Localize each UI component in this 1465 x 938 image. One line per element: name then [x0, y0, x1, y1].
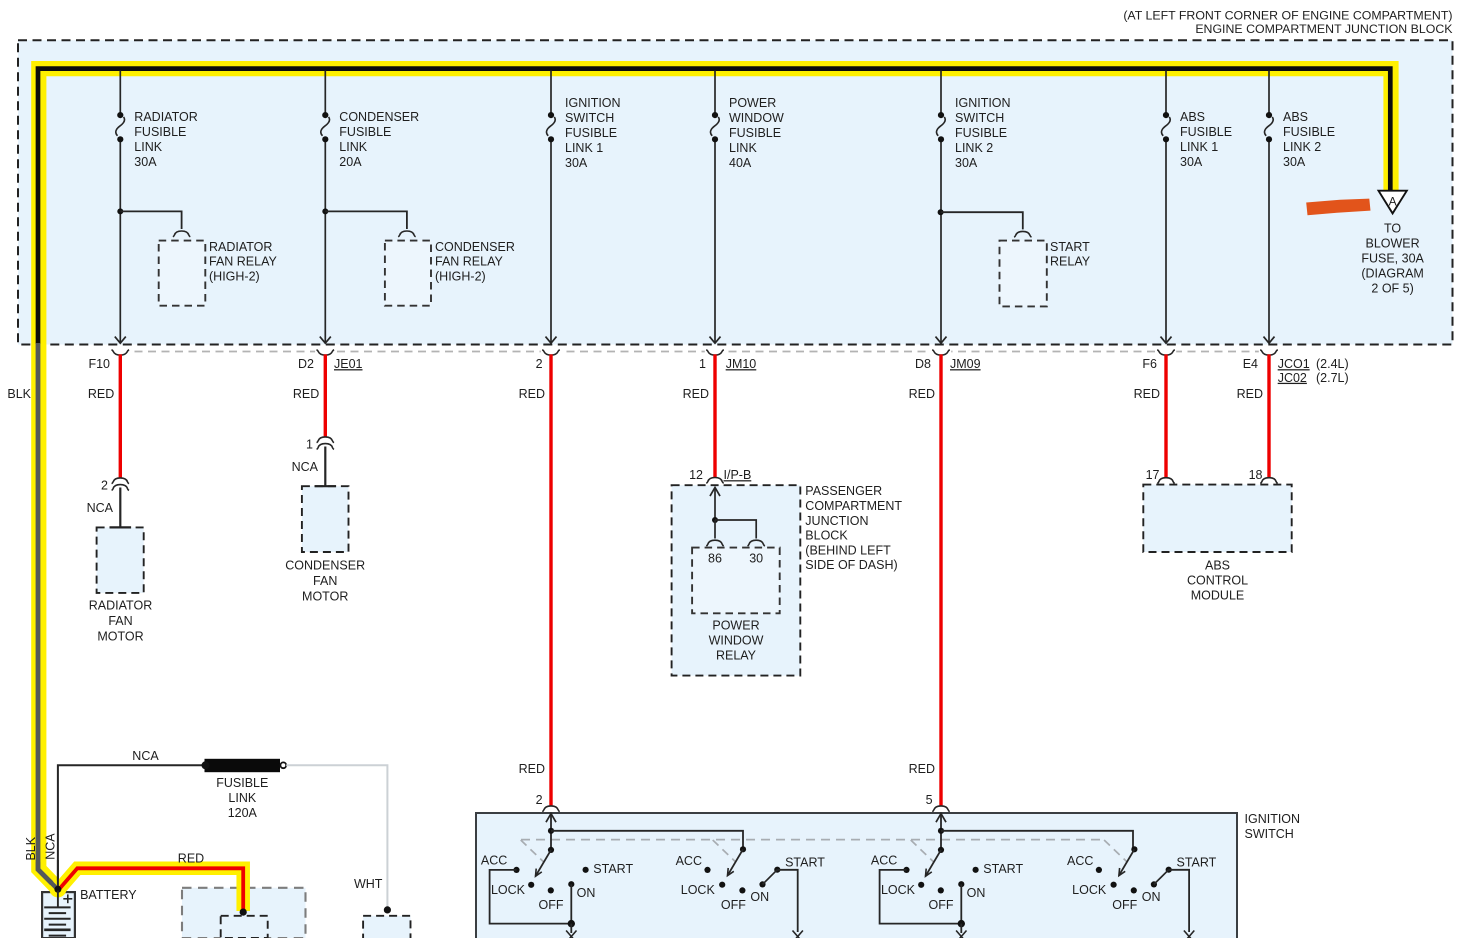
- svg-text:FAN RELAY: FAN RELAY: [435, 254, 504, 268]
- svg-text:LINK 1: LINK 1: [1180, 140, 1218, 154]
- svg-text:OFF: OFF: [929, 898, 954, 912]
- svg-text:(2.7L): (2.7L): [1316, 371, 1349, 385]
- junction node to condenser fan relay: [322, 208, 407, 229]
- labels ACC LOCK OFF ON START (wafer 2): [676, 854, 826, 912]
- pin label 86: [708, 551, 722, 565]
- svg-text:IGNITION: IGNITION: [1245, 812, 1301, 826]
- svg-text:JM09: JM09: [950, 357, 981, 371]
- off-page triangle A: [1379, 191, 1407, 214]
- label RED (ignition 1 column, lower): [519, 762, 545, 776]
- ignition switch (box): [476, 813, 1237, 938]
- wire to next wafer pivot (wafer 3): [941, 831, 1133, 850]
- wire START contact to output (wafer 4): [1169, 870, 1189, 932]
- contact LOCK (wafer 1): [528, 882, 534, 888]
- contact OFF (wafer 1): [548, 887, 554, 893]
- connector cup pin D2 (condenser fan): [315, 349, 335, 356]
- svg-text:LINK: LINK: [729, 141, 757, 155]
- svg-text:(DIAGRAM: (DIAGRAM: [1361, 267, 1424, 281]
- wire ACC-ON loop (wafer 1): [490, 870, 572, 924]
- junction block connector face (gray dashed line): [121, 351, 1269, 353]
- radiator fan relay (dashed box): [159, 241, 206, 306]
- fusible link symbol (power window): [711, 112, 720, 142]
- svg-text:RED: RED: [293, 387, 319, 401]
- contact ON (wafer 1): [568, 881, 574, 887]
- svg-text:2: 2: [101, 478, 108, 492]
- label START RELAY: [1050, 240, 1091, 268]
- label NCA (vertical, battery lead): [43, 833, 57, 860]
- svg-text:E4: E4: [1243, 357, 1258, 371]
- contact ACC (wafer 1): [513, 867, 519, 873]
- svg-text:(BEHIND LEFT: (BEHIND LEFT: [805, 543, 891, 557]
- fusible link symbol (ABS 2): [1265, 112, 1274, 142]
- svg-text:FUSIBLE: FUSIBLE: [729, 126, 781, 140]
- mechanical link diagonal (wafer 1): [521, 840, 544, 862]
- svg-text:START: START: [785, 856, 825, 870]
- power window relay (dashed box): [692, 548, 780, 614]
- svg-text:LINK 1: LINK 1: [565, 141, 603, 155]
- svg-text:COMPARTMENT: COMPARTMENT: [805, 499, 902, 513]
- svg-text:12: 12: [689, 468, 703, 482]
- junction node bus link (wafer 1): [548, 828, 554, 834]
- label POWER WINDOW RELAY: [709, 619, 764, 663]
- svg-text:ABS: ABS: [1205, 558, 1230, 572]
- svg-text:FAN: FAN: [108, 614, 132, 628]
- svg-text:FUSIBLE: FUSIBLE: [1283, 125, 1335, 139]
- label RADIATOR FUSIBLE (radiator fan): [134, 110, 197, 169]
- pin label E4 / nets JCO1 JC02: [1243, 357, 1349, 385]
- wire RED E4 to ABS control module pin 18: [1267, 354, 1270, 477]
- fusible link 120A (black body): [202, 759, 287, 772]
- label ABS FUSIBLE (ABS 2): [1283, 110, 1335, 169]
- pin 86 connector arc: [706, 540, 723, 546]
- svg-text:WHT: WHT: [354, 877, 383, 891]
- svg-text:FAN RELAY: FAN RELAY: [209, 254, 278, 268]
- rotor arm (wafer 4): [1119, 849, 1135, 875]
- svg-text:LINK: LINK: [134, 140, 162, 154]
- contact START (wafer 3): [973, 867, 979, 873]
- svg-text:(HIGH-2): (HIGH-2): [209, 269, 260, 283]
- svg-text:F6: F6: [1142, 357, 1157, 371]
- wire RED battery feed to starter box: [58, 868, 243, 911]
- pin label 30: [749, 551, 763, 565]
- contact ON (wafer 2): [759, 881, 765, 887]
- svg-text:F10: F10: [88, 357, 110, 371]
- svg-text:IGNITION: IGNITION: [565, 96, 621, 110]
- contact START (wafer 4): [1166, 867, 1172, 873]
- label POWER WINDOW (power window): [729, 96, 784, 170]
- label RED (ignition 2 column, upper): [909, 387, 935, 401]
- svg-text:LOCK: LOCK: [1072, 883, 1107, 897]
- svg-text:ACC: ACC: [1067, 854, 1093, 868]
- pin label 1 / net JM10: [699, 357, 756, 371]
- svg-text:RED: RED: [88, 387, 114, 401]
- starter feed inner box (dashed): [221, 916, 268, 938]
- svg-text:LOCK: LOCK: [491, 883, 526, 897]
- svg-text:RED: RED: [683, 387, 709, 401]
- junction node (power window relay feed): [712, 517, 718, 523]
- labels ACC LOCK OFF ON START (wafer 4): [1067, 854, 1217, 912]
- wire NCA lower end over highlight: [57, 860, 59, 889]
- label RED (power window column): [683, 387, 709, 401]
- svg-text:ACC: ACC: [481, 854, 507, 868]
- wire from bus to radiator fan fusible link output: [115, 71, 126, 344]
- svg-text:CONDENSER: CONDENSER: [285, 558, 365, 572]
- contact LOCK (wafer 3): [918, 882, 924, 888]
- svg-text:RADIATOR: RADIATOR: [209, 240, 272, 254]
- svg-text:FUSIBLE: FUSIBLE: [216, 776, 268, 790]
- wire from bus to ABS 2 fusible link output: [1264, 71, 1275, 344]
- svg-text:JM10: JM10: [726, 357, 757, 371]
- yellow highlight for RED battery feed wire: [49, 868, 243, 911]
- output wire exits bottom (wafer 1): [566, 924, 576, 938]
- svg-text:30A: 30A: [1180, 155, 1203, 169]
- mechanical link diagonal (wafer 2): [713, 840, 736, 862]
- junction node to radiator fan relay: [117, 208, 181, 229]
- svg-text:SWITCH: SWITCH: [955, 111, 1004, 125]
- svg-text:OFF: OFF: [539, 898, 564, 912]
- svg-text:FUSIBLE: FUSIBLE: [955, 126, 1007, 140]
- wire into power window relay (arrow up): [710, 488, 720, 521]
- svg-text:POWER: POWER: [712, 619, 759, 633]
- contact ACC (wafer 3): [903, 867, 909, 873]
- contact LOCK (wafer 2): [719, 882, 725, 888]
- wire NCA to radiator fan motor: [119, 488, 121, 528]
- label RADIATOR FAN RELAY (HIGH-2): [209, 240, 278, 283]
- start relay (dashed box): [1000, 241, 1047, 307]
- label CONDENSER FUSIBLE (condenser fan): [339, 110, 419, 169]
- label RED (ignition 2 column, lower): [909, 762, 935, 776]
- pin 17 connector arc: [1146, 468, 1175, 483]
- svg-text:I/P-B: I/P-B: [724, 468, 752, 482]
- wire from bus to ABS 1 fusible link output: [1161, 71, 1172, 344]
- svg-text:17: 17: [1146, 468, 1160, 482]
- svg-text:NCA: NCA: [43, 833, 57, 860]
- svg-text:RED: RED: [1237, 387, 1263, 401]
- svg-text:30A: 30A: [955, 156, 978, 170]
- svg-text:FAN: FAN: [313, 574, 337, 588]
- junction node to start relay: [938, 209, 1023, 229]
- wire RED JM09 to ignition switch pin 5: [939, 354, 942, 805]
- svg-text:BLK: BLK: [24, 836, 38, 860]
- label BLK (left edge): [7, 387, 31, 401]
- svg-text:LOCK: LOCK: [881, 883, 916, 897]
- wire RED F6 to ABS control module pin 17: [1164, 354, 1167, 477]
- svg-text:JCO1: JCO1: [1278, 357, 1310, 371]
- orange highlighter mark: [1306, 199, 1370, 216]
- svg-text:RED: RED: [1134, 387, 1160, 401]
- wire branch to relay pin 86: [714, 520, 716, 539]
- pin 2 connector arc (ignition switch): [536, 793, 560, 812]
- svg-text:POWER: POWER: [729, 96, 776, 110]
- svg-text:OFF: OFF: [1112, 898, 1137, 912]
- svg-text:ON: ON: [750, 890, 769, 904]
- battery positive junction node: [54, 886, 61, 893]
- wire branch to relay pin 30: [715, 520, 756, 539]
- output wire exits bottom (wafer 4): [1184, 931, 1194, 938]
- wire from bus to condenser fan fusible link output: [320, 71, 331, 344]
- condenser fan motor (dashed box): [302, 486, 349, 552]
- pin connector arc (condenser fan relay coil): [398, 231, 415, 237]
- pin connector arc (radiator fan relay coil): [173, 231, 190, 237]
- label RED (ABS 1 column): [1134, 387, 1160, 401]
- label IGNITION SWITCH: [1245, 812, 1301, 841]
- mechanical link diagonal (wafer 4): [1104, 840, 1127, 862]
- svg-text:20A: 20A: [339, 155, 362, 169]
- labels ACC LOCK OFF ON START (wafer 1): [481, 854, 634, 912]
- contact ACC (wafer 4): [1096, 867, 1102, 873]
- junction node (starter feed): [240, 909, 247, 916]
- wire RED to ignition switch pin 2: [549, 354, 552, 805]
- svg-text:FUSIBLE: FUSIBLE: [565, 126, 617, 140]
- output wire exits bottom (wafer 3): [956, 924, 966, 938]
- svg-text:30A: 30A: [134, 155, 157, 169]
- wire ON to START contact (wafer 4): [1154, 870, 1169, 885]
- svg-text:OFF: OFF: [721, 898, 746, 912]
- label IGNITION SWITCH (ignition switch 1): [565, 96, 621, 170]
- svg-text:NCA: NCA: [87, 501, 114, 515]
- svg-text:RED: RED: [519, 387, 545, 401]
- svg-text:JUNCTION: JUNCTION: [805, 514, 868, 528]
- pin connector arc (start relay coil): [1014, 231, 1031, 237]
- wire to next wafer pivot (wafer 1): [551, 831, 743, 850]
- svg-text:CONDENSER: CONDENSER: [339, 110, 419, 124]
- contact START (wafer 2): [774, 867, 780, 873]
- svg-text:RADIATOR: RADIATOR: [134, 110, 197, 124]
- svg-text:ENGINE COMPARTMENT JUNCTION BL: ENGINE COMPARTMENT JUNCTION BLOCK: [1195, 22, 1453, 36]
- wire NCA battery to fusible link 120A: [58, 765, 205, 889]
- svg-text:RED: RED: [909, 387, 935, 401]
- mechanical link diagonal (wafer 3): [911, 840, 934, 862]
- connector cup pin D8 (ignition switch 2): [931, 349, 951, 356]
- connector cup pin E4 (ABS 2): [1259, 349, 1279, 356]
- svg-text:ON: ON: [967, 886, 986, 900]
- svg-text:RELAY: RELAY: [1050, 254, 1091, 268]
- svg-text:5: 5: [926, 793, 933, 807]
- inline connector pin 2 (radiator fan motor): [101, 478, 129, 492]
- svg-text:30: 30: [749, 551, 763, 565]
- svg-text:BLOCK: BLOCK: [805, 529, 848, 543]
- bus wire (black core, junction block feed): [38, 69, 1390, 344]
- label PASSENGER COMPARTMENT JUNCTION BLOCK (BEHIND LEFT SIDE OF DASH): [805, 484, 902, 572]
- rotor pivot node (wafer 2): [740, 846, 746, 852]
- svg-text:LOCK: LOCK: [681, 883, 716, 897]
- mechanical link (gray dashed horizontal): [521, 839, 1101, 841]
- pin label F10: [88, 357, 110, 371]
- svg-text:START: START: [593, 862, 633, 876]
- pin label D8 / net JM09: [915, 357, 981, 371]
- pin label F6: [1142, 357, 1157, 371]
- svg-text:ACC: ACC: [871, 854, 897, 868]
- svg-text:18: 18: [1249, 468, 1263, 482]
- pin 30 connector arc: [748, 540, 765, 546]
- svg-text:SIDE OF DASH): SIDE OF DASH): [805, 558, 897, 572]
- svg-text:RED: RED: [519, 762, 545, 776]
- pin label D2 / net JE01: [298, 357, 363, 371]
- wire RED D2/JE01 to condenser fan motor: [324, 354, 327, 436]
- ignition switch feed entry (wafer 1): [546, 814, 556, 850]
- wire WHT from fusible link: [286, 765, 387, 908]
- connector cup pin F6 (ABS 1): [1156, 349, 1176, 356]
- contact ON (wafer 4): [1151, 881, 1157, 887]
- label NCA (horizontal run): [132, 749, 159, 763]
- output wire exits bottom (wafer 2): [793, 931, 803, 938]
- label IGNITION SWITCH (ignition switch 2): [955, 96, 1011, 170]
- fusible link symbol (radiator fan): [116, 112, 125, 142]
- svg-text:1: 1: [306, 437, 313, 451]
- rotor arm (wafer 1): [536, 850, 552, 876]
- svg-text:BATTERY: BATTERY: [80, 888, 137, 902]
- svg-text:D2: D2: [298, 357, 314, 371]
- svg-text:IGNITION: IGNITION: [955, 96, 1011, 110]
- junction node output (wafer 1): [568, 920, 575, 927]
- connector cup pin 1 (power window): [705, 349, 725, 356]
- svg-text:2 OF 5): 2 OF 5): [1371, 282, 1413, 296]
- pin 5 connector arc (ignition switch): [926, 793, 950, 812]
- svg-text:MOTOR: MOTOR: [302, 589, 348, 603]
- svg-text:ON: ON: [577, 886, 596, 900]
- contact LOCK (wafer 4): [1111, 882, 1117, 888]
- contact START (wafer 1): [583, 867, 589, 873]
- svg-text:2: 2: [536, 793, 543, 807]
- svg-text:LINK 2: LINK 2: [955, 141, 993, 155]
- svg-text:NCA: NCA: [292, 460, 319, 474]
- svg-text:START: START: [983, 862, 1023, 876]
- svg-text:SWITCH: SWITCH: [1245, 827, 1294, 841]
- svg-text:WINDOW: WINDOW: [709, 634, 764, 648]
- engine compartment junction block (dashed box): [18, 40, 1453, 344]
- inline connector pin 1 (condenser fan motor): [306, 437, 334, 451]
- contact OFF (wafer 3): [938, 887, 944, 893]
- svg-text:CONTROL: CONTROL: [1187, 573, 1248, 587]
- wire from bus to ignition switch 2 fusible link output: [936, 71, 947, 344]
- wire NCA to condenser fan motor: [324, 447, 326, 487]
- svg-text:30A: 30A: [565, 156, 588, 170]
- svg-text:FUSIBLE: FUSIBLE: [339, 125, 391, 139]
- starter feed outer box (gray dashed): [182, 888, 306, 938]
- svg-text:LINK: LINK: [228, 791, 256, 805]
- rotor pivot node (wafer 4): [1131, 846, 1137, 852]
- junction node output (wafer 3): [958, 920, 965, 927]
- label WHT: [354, 877, 383, 891]
- svg-text:CONDENSER: CONDENSER: [435, 240, 515, 254]
- component box on WHT wire (dashed): [363, 916, 410, 938]
- rotor arm (wafer 2): [728, 849, 744, 875]
- wire RED JM10 to passenger compartment junction block: [713, 354, 716, 477]
- contact ACC (wafer 2): [704, 867, 710, 873]
- svg-text:86: 86: [708, 551, 722, 565]
- svg-text:JC02: JC02: [1278, 371, 1307, 385]
- battery (box symbol): [42, 892, 75, 938]
- svg-text:MODULE: MODULE: [1191, 588, 1244, 602]
- wire BLK battery positive lead: [38, 343, 58, 890]
- svg-text:ABS: ABS: [1180, 110, 1205, 124]
- labels ACC LOCK OFF ON START (wafer 3): [871, 854, 1024, 912]
- svg-text:MOTOR: MOTOR: [97, 629, 143, 643]
- wire to blower fuse (yellow/black, right side): [0, 0, 1, 1]
- svg-text:FUSIBLE: FUSIBLE: [134, 125, 186, 139]
- label NCA (radiator fan motor): [87, 501, 114, 515]
- svg-text:START: START: [1177, 856, 1217, 870]
- label TO BLOWER FUSE 30A (DIAGRAM 2 OF 5): [1361, 221, 1424, 295]
- svg-text:START: START: [1050, 240, 1090, 254]
- contact OFF (wafer 4): [1131, 887, 1137, 893]
- rotor pivot node (wafer 1): [548, 847, 554, 853]
- label: engine compartment junction block: [1195, 22, 1453, 36]
- wire RED F10 to radiator fan motor: [119, 354, 122, 477]
- label CONDENSER FAN RELAY (HIGH-2): [435, 240, 515, 283]
- contact ON (wafer 3): [958, 881, 964, 887]
- fusible link symbol (ignition switch 1): [547, 112, 556, 142]
- svg-text:FUSIBLE: FUSIBLE: [1180, 125, 1232, 139]
- svg-text:A: A: [1389, 194, 1397, 208]
- label RED (ignition 1 column, upper): [519, 387, 545, 401]
- ignition switch feed entry (wafer 3): [936, 814, 946, 850]
- svg-text:40A: 40A: [729, 156, 752, 170]
- label CONDENSER FAN MOTOR: [285, 558, 365, 603]
- wire ACC-ON loop (wafer 3): [880, 870, 962, 924]
- wire ON to START contact (wafer 2): [763, 870, 778, 885]
- svg-text:(HIGH-2): (HIGH-2): [435, 269, 486, 283]
- radiator fan motor (dashed box): [97, 527, 144, 593]
- svg-text:120A: 120A: [228, 806, 258, 820]
- svg-text:PASSENGER: PASSENGER: [805, 484, 882, 498]
- svg-text:NCA: NCA: [132, 749, 159, 763]
- svg-text:BLK: BLK: [7, 387, 31, 401]
- svg-text:2: 2: [536, 357, 543, 371]
- pin 18 connector arc: [1249, 468, 1278, 483]
- svg-text:LINK 2: LINK 2: [1283, 140, 1321, 154]
- junction node bus link (wafer 3): [938, 828, 944, 834]
- svg-text:1: 1: [699, 357, 706, 371]
- rotor arm (wafer 3): [926, 850, 942, 876]
- svg-text:FUSE, 30A: FUSE, 30A: [1361, 252, 1424, 266]
- label RED (ABS 2 column): [1237, 387, 1263, 401]
- junction node on WHT wire: [384, 906, 391, 913]
- connector cup pin 2 (ignition switch 1): [541, 349, 561, 356]
- svg-text:(AT LEFT FRONT CORNER OF ENGIN: (AT LEFT FRONT CORNER OF ENGINE COMPARTM…: [1123, 9, 1452, 23]
- fusible link symbol (ABS 1): [1162, 112, 1171, 142]
- svg-text:LINK: LINK: [339, 140, 367, 154]
- label ABS FUSIBLE (ABS 1): [1180, 110, 1232, 169]
- ABS control module (dashed box): [1143, 485, 1291, 552]
- svg-text:ABS: ABS: [1283, 110, 1308, 124]
- svg-text:ACC: ACC: [676, 854, 702, 868]
- wire from bus to power window fusible link output: [710, 71, 721, 344]
- battery plates and terminal: [44, 891, 72, 936]
- svg-text:RELAY: RELAY: [716, 649, 757, 663]
- svg-text:RADIATOR: RADIATOR: [89, 598, 152, 612]
- pin label 2: [536, 357, 543, 371]
- label RED (condenser column): [293, 387, 319, 401]
- svg-text:30A: 30A: [1283, 155, 1306, 169]
- rotor pivot node (wafer 3): [938, 847, 944, 853]
- fusible link symbol (condenser fan): [321, 112, 330, 142]
- svg-text:JE01: JE01: [334, 357, 363, 371]
- label BLK (vertical, battery lead): [24, 836, 38, 860]
- note: location of junction block: [1123, 9, 1452, 23]
- svg-text:WINDOW: WINDOW: [729, 111, 784, 125]
- label RADIATOR FAN MOTOR: [89, 598, 152, 643]
- label RED (battery feed): [178, 851, 204, 865]
- svg-text:SWITCH: SWITCH: [565, 111, 614, 125]
- label FUSIBLE LINK 120A: [216, 776, 268, 820]
- svg-text:RED: RED: [178, 851, 204, 865]
- wire from bus to ignition switch 1 fusible link output: [546, 71, 557, 344]
- svg-text:D8: D8: [915, 357, 931, 371]
- svg-text:(2.4L): (2.4L): [1316, 357, 1349, 371]
- svg-text:ON: ON: [1142, 890, 1161, 904]
- label NCA (condenser fan motor): [292, 460, 319, 474]
